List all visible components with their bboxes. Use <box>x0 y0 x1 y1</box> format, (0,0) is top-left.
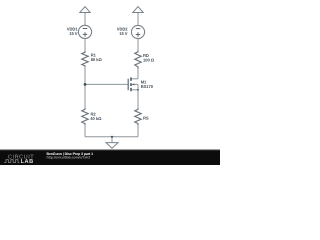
svg-text:15 V: 15 V <box>119 31 128 36</box>
svg-text:LAB: LAB <box>21 159 34 165</box>
svg-text:40 kΩ: 40 kΩ <box>90 116 102 121</box>
svg-text:http://circuitlab.com/c/7xh2: http://circuitlab.com/c/7xh2 <box>47 155 91 159</box>
svg-text:15 V: 15 V <box>69 31 78 36</box>
svg-text:100 Ω: 100 Ω <box>143 57 155 62</box>
svg-text:80 kΩ: 80 kΩ <box>91 57 103 62</box>
svg-text:RS: RS <box>143 116 149 121</box>
svg-text:BS170: BS170 <box>141 84 154 89</box>
